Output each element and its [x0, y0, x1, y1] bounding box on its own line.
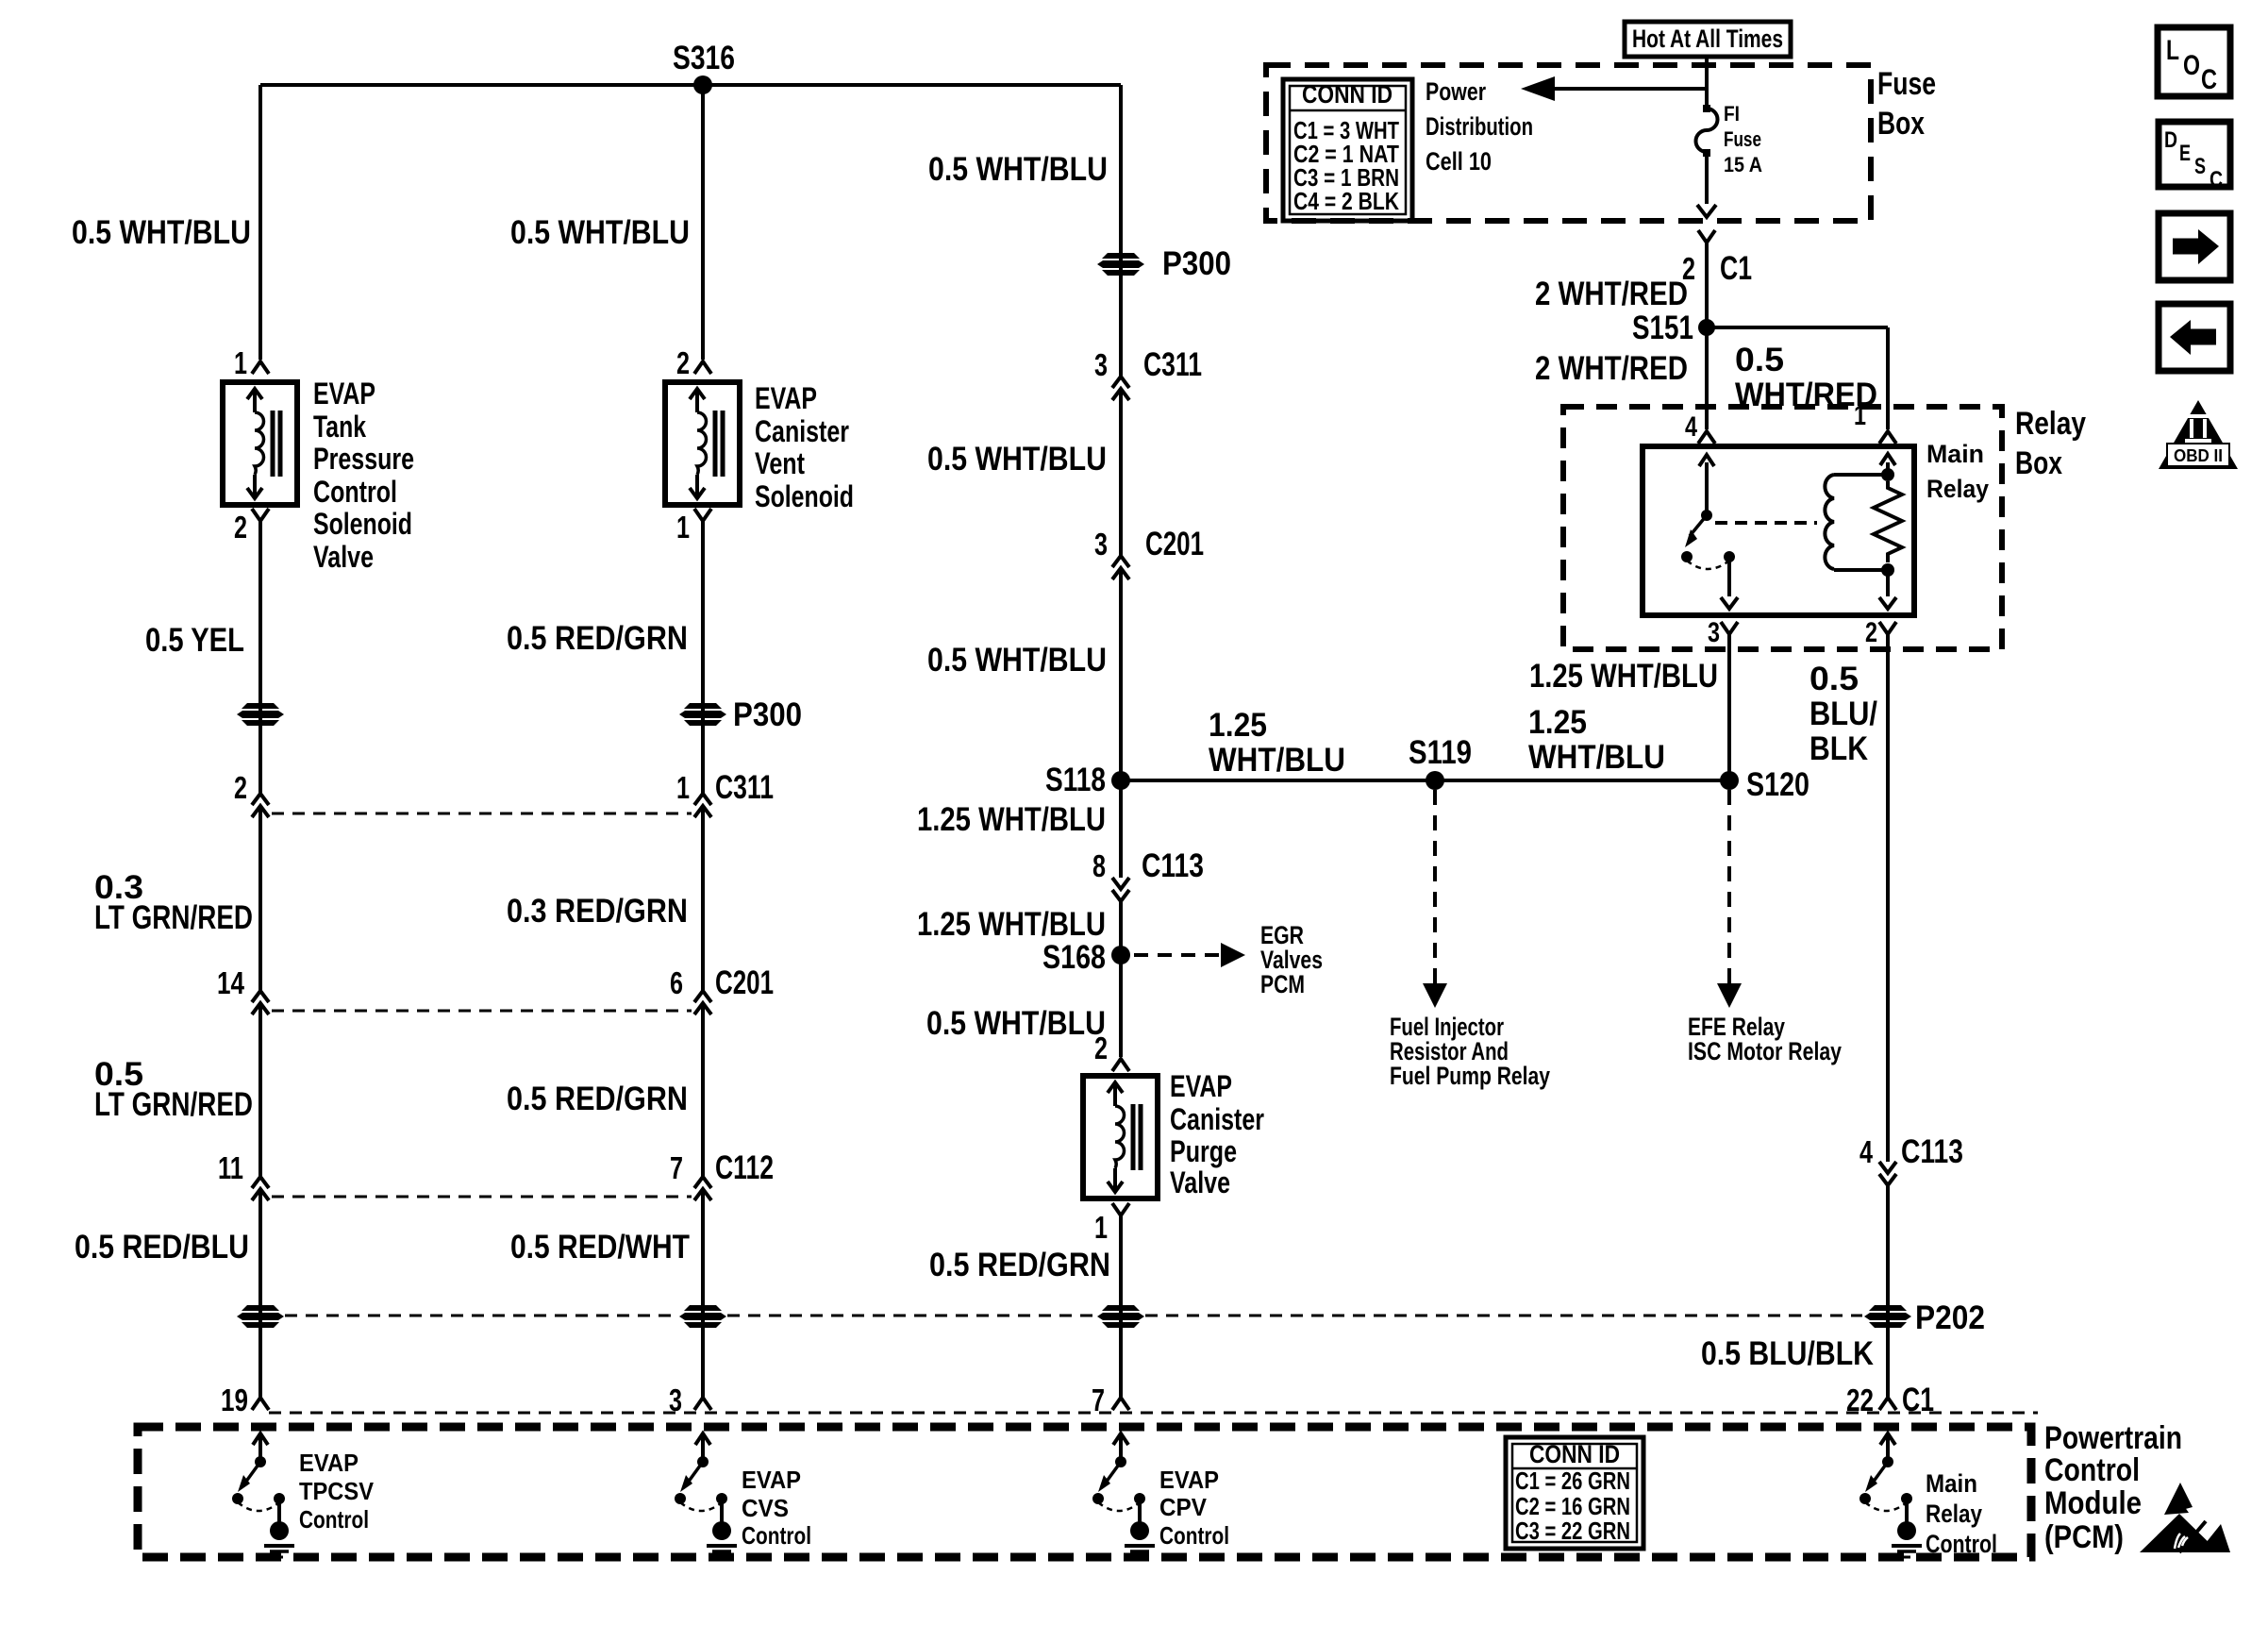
svg-text:C113: C113	[1142, 847, 1204, 884]
solenoid valve V3 EVAP Canister Purge Valve	[1083, 1076, 1158, 1199]
wire dashed S120 drop to EFE relay	[1727, 790, 1731, 983]
connector P202 grommet col1	[242, 1305, 279, 1311]
svg-text:0.5 WHT/BLU: 0.5 WHT/BLU	[927, 642, 1107, 679]
svg-text:Box: Box	[2015, 445, 2062, 481]
solenoid valve V2 EVAP Canister Vent Solenoid	[665, 382, 740, 505]
svg-text:Box: Box	[1877, 106, 1925, 142]
svg-text:S151: S151	[1632, 310, 1693, 346]
relay switch arm	[1705, 462, 1709, 515]
svg-text:CONN ID: CONN ID	[1302, 80, 1392, 109]
svg-text:Solenoid: Solenoid	[755, 479, 854, 513]
svg-text:LT GRN/RED: LT GRN/RED	[94, 899, 253, 936]
connector pin 4 fork	[1698, 431, 1715, 444]
connector C201 inline col1	[252, 991, 269, 1002]
svg-text:C113: C113	[1901, 1133, 1963, 1170]
wire relay pin 3 down to S120	[1727, 634, 1731, 780]
svg-text:0.3 RED/GRN: 0.3 RED/GRN	[507, 893, 688, 930]
svg-text:S168: S168	[1042, 939, 1106, 976]
wire dashed S119 drop to fuel injector resistor	[1433, 790, 1437, 983]
connector P300 grommet col2	[684, 703, 722, 709]
svg-text:CPV: CPV	[1159, 1493, 1208, 1521]
svg-text:0.5 RED/WHT: 0.5 RED/WHT	[510, 1229, 690, 1266]
svg-text:Purge: Purge	[1170, 1134, 1237, 1168]
node S168 junction dot	[1111, 946, 1130, 964]
connector P202 grommet col3	[1102, 1305, 1140, 1311]
wire col1 valve pin2 down to PCM	[258, 521, 262, 794]
svg-text:1: 1	[676, 770, 690, 805]
svg-text:2: 2	[676, 345, 690, 380]
icon LOC	[2158, 27, 2230, 96]
svg-text:Relay: Relay	[2015, 406, 2086, 442]
svg-text:15 A: 15 A	[1724, 153, 1762, 176]
svg-text:D: D	[2164, 127, 2177, 153]
svg-text:4: 4	[1859, 1134, 1873, 1169]
svg-text:19: 19	[221, 1383, 248, 1417]
connector pin2 fork col1	[252, 509, 269, 521]
svg-text:0.5 RED/BLU: 0.5 RED/BLU	[75, 1229, 249, 1266]
svg-text:0.5: 0.5	[1735, 342, 1784, 378]
svg-text:BLK: BLK	[1809, 730, 1868, 767]
svg-text:CONN ID: CONN ID	[1529, 1440, 1620, 1468]
wire S118 horizontal bus to S120	[1121, 779, 1729, 782]
svg-text:S: S	[2194, 154, 2206, 179]
connector C113 inline right column	[1879, 1162, 1896, 1173]
svg-text:C201: C201	[1145, 526, 1204, 562]
svg-text:Canister: Canister	[755, 414, 849, 448]
svg-text:0.5 RED/GRN: 0.5 RED/GRN	[507, 620, 688, 657]
svg-text:Canister: Canister	[1170, 1102, 1264, 1136]
connector pin1 fork purge valve	[1112, 1203, 1129, 1215]
svg-text:2 WHT/RED: 2 WHT/RED	[1535, 350, 1688, 387]
connector C112 inline col2	[694, 1177, 711, 1188]
svg-text:0.5 WHT/BLU: 0.5 WHT/BLU	[510, 214, 690, 251]
relay coil bottom node	[1881, 563, 1894, 577]
wire col2 from S316 down to vent solenoid pin 2	[701, 85, 705, 360]
wire top horizontal bus from EVAP TPCSV column to EVAP CPV column	[260, 83, 1121, 87]
svg-text:S120: S120	[1746, 766, 1809, 803]
wire dashed arrow S168 to EGR	[1134, 953, 1219, 957]
svg-text:0.5 WHT/BLU: 0.5 WHT/BLU	[926, 1005, 1106, 1042]
svg-text:Power: Power	[1426, 77, 1486, 106]
wire dashed jumper C112 row	[272, 1196, 692, 1199]
svg-text:C: C	[2210, 167, 2223, 193]
wire relay right branch to pin 1	[1886, 462, 1890, 475]
svg-text:0.5 RED/GRN: 0.5 RED/GRN	[929, 1247, 1110, 1283]
switch EVAP CVS Control	[695, 1433, 710, 1445]
svg-text:EVAP: EVAP	[1170, 1069, 1232, 1103]
wire from Hot At All Times into fuse box	[1705, 57, 1709, 108]
icon ESD warning triangle upper	[2164, 1483, 2193, 1515]
svg-text:3: 3	[1094, 347, 1108, 382]
svg-text:EVAP: EVAP	[1159, 1466, 1219, 1494]
connector PCM fork col3	[1112, 1398, 1129, 1410]
svg-text:C4 = 2 BLK: C4 = 2 BLK	[1293, 187, 1399, 215]
svg-text:EVAP: EVAP	[742, 1466, 801, 1494]
svg-text:OBD II: OBD II	[2174, 446, 2223, 465]
svg-text:C112: C112	[715, 1149, 774, 1186]
svg-text:Control: Control	[299, 1505, 369, 1534]
table CONN ID fuse box	[1283, 79, 1412, 221]
icon arrow left	[2159, 304, 2230, 371]
svg-text:1.25: 1.25	[1528, 704, 1587, 741]
svg-text:Distribution: Distribution	[1426, 112, 1533, 141]
svg-text:TPCSV: TPCSV	[299, 1477, 375, 1505]
svg-text:C1 = 26 GRN: C1 = 26 GRN	[1515, 1467, 1630, 1495]
connector C201 inline col2	[694, 991, 711, 1002]
connector PCM fork col2	[694, 1398, 711, 1410]
svg-text:Main: Main	[1926, 1469, 1977, 1498]
svg-text:LT GRN/RED: LT GRN/RED	[94, 1086, 253, 1123]
svg-text:WHT/BLU: WHT/BLU	[1209, 742, 1345, 779]
node S119 junction dot	[1426, 771, 1444, 790]
svg-text:1.25 WHT/BLU: 1.25 WHT/BLU	[1529, 658, 1718, 695]
switch EVAP CPV Control	[1113, 1433, 1128, 1445]
wire purge valve pin1 down to PCM	[1119, 1215, 1123, 1398]
wire fuse down to fuse box edge with arrow	[1705, 157, 1709, 204]
svg-text:Control: Control	[313, 475, 397, 509]
connector pin1 fork col1	[252, 361, 269, 374]
svg-text:0.5 WHT/BLU: 0.5 WHT/BLU	[72, 214, 251, 251]
svg-text:6: 6	[670, 965, 683, 1000]
svg-text:Cell 10: Cell 10	[1426, 147, 1492, 176]
svg-text:Control: Control	[1926, 1530, 1997, 1558]
box Powertrain Control Module dashed	[138, 1427, 2031, 1557]
wire col1 from top bus down to valve pin 1	[258, 85, 262, 360]
svg-text:1: 1	[1094, 1210, 1108, 1245]
svg-text:C1: C1	[1720, 250, 1752, 287]
svg-text:Main: Main	[1926, 440, 1984, 468]
svg-text:Control: Control	[1159, 1521, 1229, 1550]
svg-text:C3 = 22 GRN: C3 = 22 GRN	[1515, 1517, 1630, 1545]
node S151 junction dot	[1698, 319, 1715, 336]
svg-text:PCM: PCM	[1260, 970, 1305, 998]
svg-text:EVAP: EVAP	[755, 381, 817, 415]
connector pin2 fork purge valve	[1112, 1059, 1129, 1071]
wire dashed PCM connector face line	[269, 1412, 2038, 1415]
svg-text:2: 2	[1094, 1031, 1108, 1065]
wire col3 from top bus down to S118 and purge valve	[1119, 85, 1123, 377]
svg-text:8: 8	[1092, 848, 1106, 883]
connector PCM fork right column	[1879, 1398, 1896, 1410]
svg-text:Relay: Relay	[1926, 1500, 1982, 1528]
relay actuation dashed link	[1715, 521, 1817, 525]
connector C113 inline col3	[1112, 878, 1129, 889]
connector C311 inline col2	[694, 794, 711, 805]
svg-text:BLU/: BLU/	[1809, 696, 1877, 732]
svg-text:C311: C311	[715, 769, 774, 806]
svg-text:O: O	[2183, 50, 2200, 81]
svg-text:EVAP: EVAP	[299, 1449, 359, 1477]
icon ESD warning triangle lower	[2140, 1514, 2219, 1552]
svg-text:1: 1	[1854, 400, 1866, 431]
icon OBD II triangle	[2159, 400, 2238, 469]
svg-text:Powertrain: Powertrain	[2044, 1420, 2182, 1456]
wire dashed jumper C311 row	[272, 813, 692, 815]
switch EVAP TPCSV Control	[253, 1433, 268, 1445]
svg-text:C: C	[2201, 64, 2217, 95]
table CONN ID PCM	[1506, 1437, 1643, 1549]
svg-text:P202: P202	[1915, 1299, 1985, 1336]
svg-text:1: 1	[234, 345, 247, 380]
wire S151 down to relay pin 4	[1705, 327, 1709, 429]
wire C113 down to P202 and PCM	[1886, 1185, 1890, 1398]
connector pin1 fork col2	[694, 509, 711, 521]
svg-text:C311: C311	[1143, 346, 1202, 383]
connector pin 1 fork	[1879, 431, 1896, 444]
svg-text:0.5 BLU/BLK: 0.5 BLU/BLK	[1701, 1335, 1874, 1372]
wire dashed jumper P202 row	[285, 1315, 678, 1317]
connector P300 grommet col3	[1102, 253, 1140, 259]
svg-text:3: 3	[1094, 527, 1108, 562]
svg-text:1: 1	[676, 510, 690, 545]
svg-text:Valve: Valve	[313, 540, 374, 574]
wire S151 branch right and down to relay pin 1	[1707, 326, 1888, 329]
svg-text:Fuse: Fuse	[1877, 66, 1936, 102]
svg-text:FI: FI	[1724, 102, 1740, 126]
connector C112 inline col1	[252, 1177, 269, 1188]
connector PCM fork col1	[252, 1398, 269, 1410]
svg-text:0.5 WHT/BLU: 0.5 WHT/BLU	[927, 441, 1107, 478]
svg-text:Hot At All Times: Hot At All Times	[1632, 25, 1783, 53]
svg-text:0.5 YEL: 0.5 YEL	[145, 622, 244, 659]
node S316 junction dot	[693, 75, 712, 94]
svg-text:S316: S316	[673, 40, 735, 76]
svg-text:CVS: CVS	[742, 1494, 789, 1522]
svg-text:Pressure: Pressure	[313, 442, 414, 476]
svg-text:4: 4	[1685, 411, 1697, 443]
connector P300 grommet col1	[242, 703, 279, 709]
svg-text:Control: Control	[2044, 1452, 2140, 1488]
relay K1 Main Relay box	[1643, 446, 1914, 615]
svg-text:S119: S119	[1409, 734, 1472, 771]
box Fuse Box dashed	[1266, 65, 1871, 221]
svg-text:0.5 WHT/BLU: 0.5 WHT/BLU	[928, 151, 1108, 188]
svg-text:14: 14	[217, 965, 245, 1000]
wire fuse box to S151	[1705, 243, 1709, 327]
svg-text:P300: P300	[733, 696, 802, 733]
connector C1 fork below fuse box	[1698, 230, 1715, 243]
box Relay Box dashed	[1563, 407, 2002, 649]
svg-text:(PCM): (PCM)	[2044, 1519, 2124, 1555]
connector C311 inline col3	[1112, 377, 1129, 388]
svg-text:L: L	[2166, 35, 2179, 66]
connector C201 inline col3	[1112, 556, 1129, 567]
svg-text:E: E	[2179, 141, 2191, 166]
wire relay pin 2 down to C113	[1886, 634, 1890, 1162]
svg-text:ISC Motor Relay: ISC Motor Relay	[1688, 1037, 1842, 1065]
connector P202 grommet col2	[684, 1305, 722, 1311]
box Hot At All Times	[1625, 22, 1791, 57]
connector pin2 fork col2	[694, 361, 711, 374]
relay coil top node	[1881, 468, 1894, 481]
svg-text:Fuse: Fuse	[1724, 127, 1761, 151]
wire relay right branch to pin 2	[1886, 570, 1890, 596]
svg-text:Module: Module	[2044, 1485, 2142, 1521]
relay coil	[1825, 475, 1834, 569]
svg-text:Tank: Tank	[313, 410, 366, 444]
connector P202 grommet right column	[1869, 1305, 1907, 1311]
wire arrow to power distribution	[1553, 87, 1707, 91]
connector C311 inline col1	[252, 794, 269, 805]
svg-text:P300: P300	[1162, 245, 1231, 282]
icon DESC	[2159, 122, 2230, 187]
svg-text:2: 2	[234, 510, 247, 545]
switch Main Relay Control	[1880, 1433, 1895, 1445]
svg-text:Relay: Relay	[1926, 475, 1989, 503]
svg-text:11: 11	[218, 1150, 243, 1185]
solenoid valve V1 EVAP Tank Pressure Control Solenoid Valve	[223, 382, 297, 505]
svg-text:7: 7	[670, 1150, 683, 1185]
fuse FI 15A	[1703, 105, 1710, 112]
svg-text:WHT/BLU: WHT/BLU	[1528, 739, 1665, 776]
connector pin 2 fork	[1879, 622, 1896, 634]
icon arrow right	[2159, 213, 2230, 280]
svg-text:2 WHT/RED: 2 WHT/RED	[1535, 276, 1688, 312]
svg-text:0.5 RED/GRN: 0.5 RED/GRN	[507, 1081, 688, 1117]
svg-text:Vent: Vent	[755, 446, 805, 480]
svg-text:2: 2	[1865, 617, 1877, 648]
svg-text:Valve: Valve	[1170, 1165, 1230, 1199]
svg-text:1.25 WHT/BLU: 1.25 WHT/BLU	[917, 801, 1106, 838]
wire col2 solenoid pin1 down to PCM	[701, 521, 705, 794]
svg-text:1.25 WHT/BLU: 1.25 WHT/BLU	[917, 906, 1106, 943]
svg-text:Solenoid: Solenoid	[313, 507, 412, 541]
svg-text:Fuel Pump Relay: Fuel Pump Relay	[1390, 1062, 1550, 1090]
svg-text:C201: C201	[715, 964, 774, 1001]
node S118 junction dot	[1111, 771, 1130, 790]
svg-text:2: 2	[234, 770, 247, 805]
relay resistor	[1874, 481, 1902, 562]
svg-text:S118: S118	[1045, 762, 1106, 798]
svg-text:3: 3	[1708, 617, 1720, 648]
connector pin 3 fork	[1721, 622, 1738, 634]
svg-text:Control: Control	[742, 1521, 811, 1550]
svg-text:1.25: 1.25	[1209, 707, 1267, 744]
svg-text:0.5: 0.5	[1809, 661, 1859, 697]
node S120 junction dot	[1720, 771, 1739, 790]
svg-text:EVAP: EVAP	[313, 377, 375, 411]
wire dashed jumper C201 row	[272, 1010, 692, 1013]
